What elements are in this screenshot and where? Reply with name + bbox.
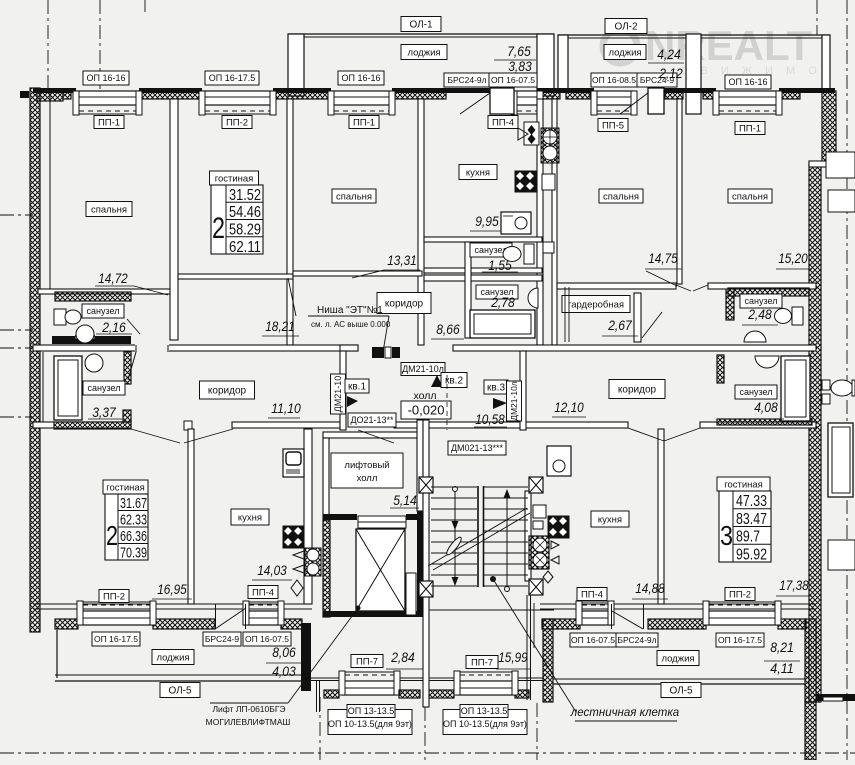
svg-text:2: 2 [106, 520, 118, 551]
svg-text:3: 3 [720, 520, 733, 551]
svg-text:ПП-4: ПП-4 [492, 117, 514, 128]
svg-text:ПП-1: ПП-1 [739, 123, 761, 134]
svg-text:холл: холл [414, 390, 437, 402]
svg-text:5,14: 5,14 [393, 493, 417, 508]
svg-text:ПП-1: ПП-1 [98, 117, 120, 128]
svg-text:гардеробная: гардеробная [568, 299, 624, 310]
svg-text:кв.3: кв.3 [487, 383, 505, 394]
svg-text:лоджия: лоджия [156, 652, 189, 663]
svg-text:62.11: 62.11 [229, 239, 261, 256]
svg-text:ПП-7: ПП-7 [356, 656, 378, 667]
svg-text:ПП-7: ПП-7 [471, 657, 493, 668]
svg-text:62.33: 62.33 [120, 513, 147, 529]
svg-text:9,95: 9,95 [475, 214, 499, 229]
svg-text:БРС24-9: БРС24-9 [205, 634, 240, 644]
svg-text:2,84: 2,84 [390, 650, 414, 665]
svg-text:кв.2: кв.2 [445, 376, 463, 387]
svg-text:ПП-2: ПП-2 [103, 591, 125, 602]
svg-text:4,11: 4,11 [770, 661, 794, 676]
svg-text:лоджия: лоджия [661, 653, 694, 664]
svg-text:2,48: 2,48 [747, 307, 772, 322]
svg-text:ПП-4: ПП-4 [581, 589, 603, 600]
svg-text:ОП 16-17.5: ОП 16-17.5 [718, 635, 762, 645]
svg-text:ОП 16-08.5: ОП 16-08.5 [592, 75, 636, 85]
svg-text:лифтовый: лифтовый [344, 460, 389, 471]
svg-text:3,83: 3,83 [508, 59, 532, 74]
svg-text:лоджия: лоджия [407, 47, 440, 58]
svg-text:10,58: 10,58 [475, 412, 505, 427]
svg-text:ОП 16-07.5: ОП 16-07.5 [491, 75, 535, 85]
svg-text:7,65: 7,65 [507, 44, 531, 59]
svg-text:15,99: 15,99 [498, 650, 528, 665]
svg-text:-0,020: -0,020 [408, 403, 445, 418]
svg-text:ОЛ-2: ОЛ-2 [614, 22, 638, 33]
svg-text:14,03: 14,03 [257, 563, 287, 578]
svg-text:12,10: 12,10 [554, 400, 584, 415]
svg-text:18,21: 18,21 [265, 319, 295, 334]
svg-text:11,10: 11,10 [271, 401, 301, 416]
svg-text:70.39: 70.39 [120, 546, 147, 562]
svg-text:гостиная: гостиная [106, 482, 145, 493]
svg-text:ОЛ-5: ОЛ-5 [669, 686, 693, 697]
svg-text:Лифт ЛП-0610БГЭ: Лифт ЛП-0610БГЭ [212, 704, 285, 714]
svg-text:95.92: 95.92 [736, 547, 767, 564]
svg-text:ОЛ-1: ОЛ-1 [409, 20, 433, 31]
svg-text:14,88: 14,88 [635, 581, 665, 596]
svg-text:санузел: санузел [745, 296, 778, 306]
svg-text:16,95: 16,95 [157, 582, 187, 597]
svg-text:4,24: 4,24 [657, 47, 681, 62]
svg-text:2,78: 2,78 [490, 295, 515, 310]
svg-text:ПП-2: ПП-2 [226, 117, 248, 128]
svg-text:ДМ21-10: ДМ21-10 [333, 376, 343, 413]
svg-text:холл: холл [357, 473, 378, 484]
svg-text:4,03: 4,03 [272, 664, 296, 679]
svg-text:спальня: спальня [603, 191, 639, 202]
svg-text:13,31: 13,31 [387, 253, 417, 268]
svg-text:4,08: 4,08 [754, 400, 778, 415]
svg-text:14,72: 14,72 [98, 271, 128, 286]
svg-text:ОП 16-16: ОП 16-16 [87, 73, 126, 83]
svg-text:лестничная клетка: лестничная клетка [570, 707, 679, 719]
svg-text:15,20: 15,20 [778, 251, 808, 266]
svg-text:8,66: 8,66 [436, 322, 460, 337]
svg-text:ОЛ-5: ОЛ-5 [168, 686, 192, 697]
svg-text:31.52: 31.52 [229, 187, 261, 204]
svg-text:ДО21-13**: ДО21-13** [350, 415, 394, 425]
svg-text:2: 2 [212, 212, 225, 245]
svg-text:гостиная: гостиная [215, 173, 254, 184]
svg-text:Ниша "ЭТ"№1: Ниша "ЭТ"№1 [317, 305, 383, 316]
svg-text:ДМ21-10л: ДМ21-10л [509, 381, 519, 421]
svg-text:58.29: 58.29 [229, 222, 261, 239]
svg-text:кухня: кухня [598, 514, 622, 525]
svg-text:8,06: 8,06 [272, 645, 296, 660]
svg-text:спальня: спальня [336, 191, 372, 202]
svg-text:санузел: санузел [88, 383, 121, 393]
svg-text:66.36: 66.36 [120, 529, 147, 545]
svg-text:МОГИЛЕВЛИФТМАШ: МОГИЛЕВЛИФТМАШ [206, 717, 291, 727]
svg-text:кв.1: кв.1 [348, 382, 366, 393]
svg-text:ПП-1: ПП-1 [353, 117, 375, 128]
svg-text:коридор: коридор [385, 299, 424, 310]
svg-text:см. л. АС выше 0.000: см. л. АС выше 0.000 [311, 320, 391, 329]
svg-text:ОП 16-16: ОП 16-16 [342, 73, 381, 83]
svg-text:8,21: 8,21 [770, 640, 794, 655]
svg-text:гостиная: гостиная [724, 479, 763, 490]
svg-text:ДМ021-13***: ДМ021-13*** [451, 443, 504, 453]
svg-text:кухня: кухня [238, 512, 262, 523]
svg-text:лоджия: лоджия [608, 47, 641, 58]
svg-text:санузел: санузел [87, 306, 120, 316]
svg-text:ОП 16-07.5: ОП 16-07.5 [571, 635, 615, 645]
svg-text:54.46: 54.46 [229, 204, 261, 221]
svg-text:ОП 16-07.5: ОП 16-07.5 [245, 634, 289, 644]
svg-text:14,75: 14,75 [648, 251, 678, 266]
svg-text:спальня: спальня [732, 191, 768, 202]
svg-text:ОП 10-13.5(для 9эт): ОП 10-13.5(для 9эт) [443, 719, 527, 729]
svg-text:17,38: 17,38 [779, 578, 809, 593]
svg-text:ОП 16-17.5: ОП 16-17.5 [209, 73, 256, 83]
svg-text:ОП 13-13.5: ОП 13-13.5 [348, 706, 395, 716]
svg-text:3,37: 3,37 [92, 405, 116, 420]
svg-text:2,16: 2,16 [101, 320, 126, 335]
svg-text:ПП-4: ПП-4 [252, 587, 274, 598]
svg-text:ОП 16-17.5: ОП 16-17.5 [94, 634, 138, 644]
svg-text:коридор: коридор [208, 386, 247, 397]
svg-text:89.7: 89.7 [736, 529, 760, 546]
svg-text:ПП-5: ПП-5 [602, 120, 624, 131]
svg-text:ПП-2: ПП-2 [729, 589, 751, 600]
svg-text:ДМ21-10л: ДМ21-10л [402, 364, 444, 374]
svg-text:ОП 16-16: ОП 16-16 [729, 77, 768, 87]
svg-text:санузел: санузел [740, 387, 773, 397]
svg-text:47.33: 47.33 [736, 493, 767, 510]
svg-text:ОП 10-13.5(для 9эт): ОП 10-13.5(для 9эт) [328, 719, 412, 729]
svg-text:31.67: 31.67 [120, 496, 147, 512]
svg-text:2,67: 2,67 [607, 318, 632, 333]
svg-text:БРС24-9л: БРС24-9л [447, 75, 486, 85]
svg-text:спальня: спальня [91, 204, 127, 215]
svg-text:коридор: коридор [618, 385, 657, 396]
svg-text:ОП 13-13.5: ОП 13-13.5 [461, 706, 508, 716]
svg-text:83.47: 83.47 [736, 511, 767, 528]
svg-text:кухня: кухня [466, 167, 490, 178]
svg-text:2,12: 2,12 [658, 66, 683, 81]
svg-text:БРС24-9л: БРС24-9л [617, 635, 656, 645]
